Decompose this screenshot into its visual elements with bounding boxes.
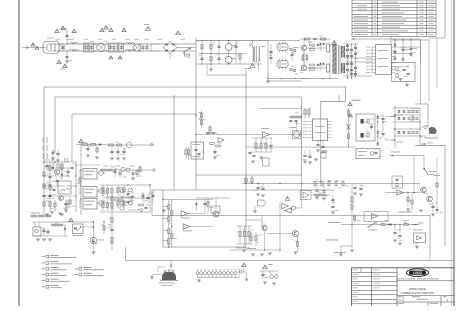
svg-text:TECHNOLOGIES INC. WOODINVILLE: TECHNOLOGIES INC. WOODINVILLE WA USA [397, 277, 439, 280]
svg-text:L0UD: L0UD [413, 271, 422, 275]
svg-text:PPS02 WAVE: PPS02 WAVE [409, 287, 425, 291]
svg-text:0009244-00: 0009244-00 [416, 299, 428, 301]
svg-text:POWER SUPPLY SECTION: POWER SUPPLY SECTION [401, 291, 434, 295]
